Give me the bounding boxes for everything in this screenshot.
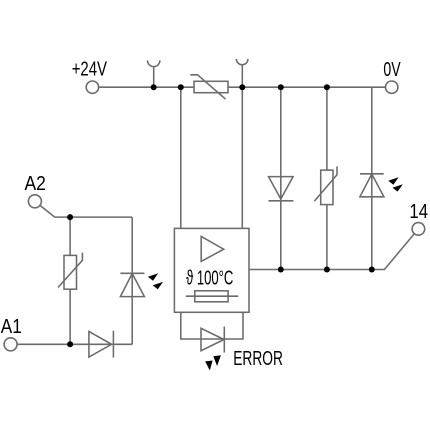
svg-text:A2: A2 (25, 172, 46, 194)
svg-text:A1: A1 (1, 315, 22, 338)
svg-text:14: 14 (409, 200, 428, 223)
svg-text:0V: 0V (383, 58, 401, 81)
svg-text:+24V: +24V (72, 57, 107, 80)
svg-text:ERROR: ERROR (233, 346, 283, 370)
svg-text:ϑ 100°C: ϑ 100°C (186, 267, 233, 289)
